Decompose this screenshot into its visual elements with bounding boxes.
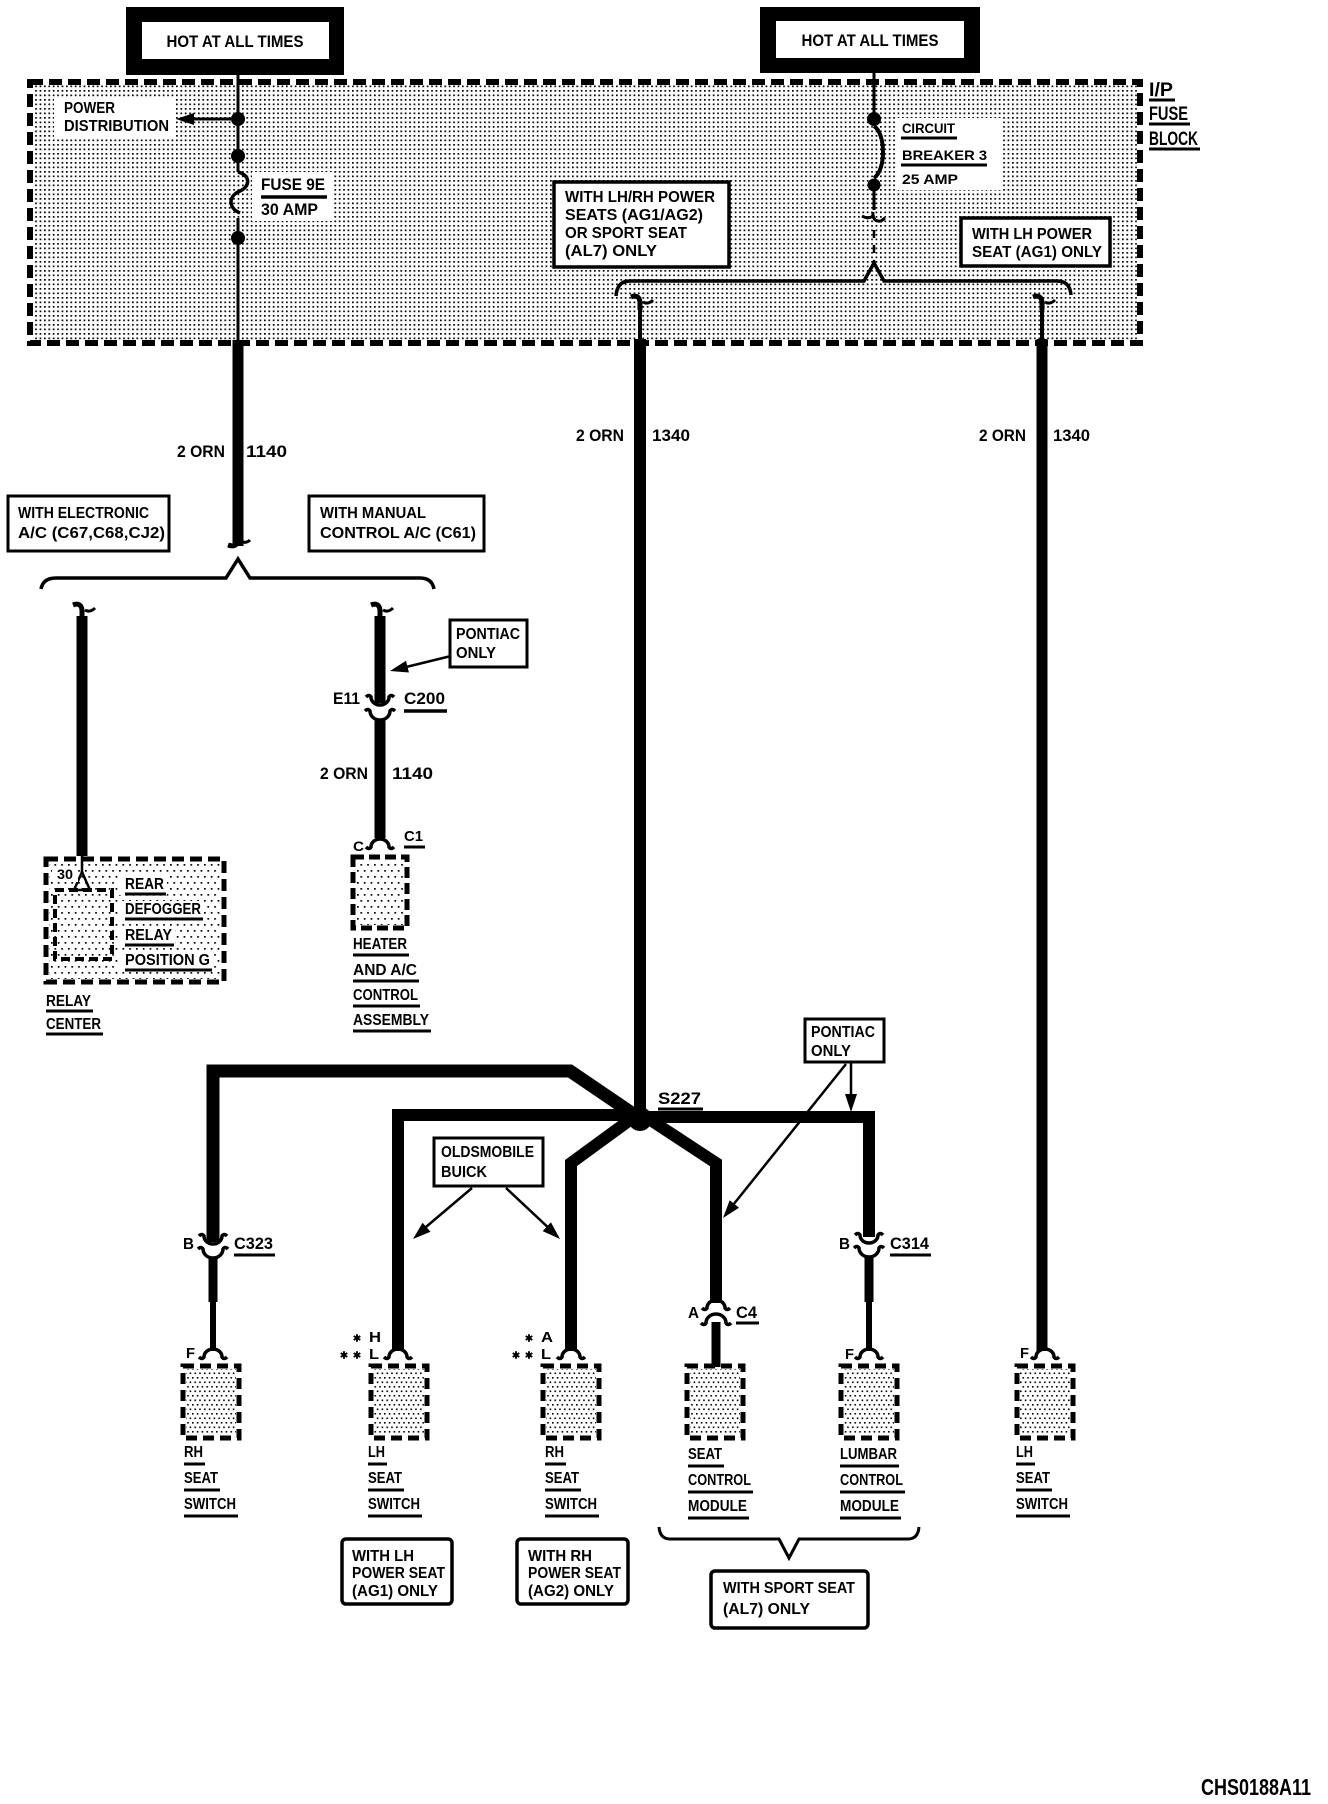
- svg-text:SEAT: SEAT: [688, 1446, 722, 1463]
- svg-text:MODULE: MODULE: [840, 1498, 899, 1515]
- svg-text:ASSEMBLY: ASSEMBLY: [353, 1012, 429, 1029]
- svg-text:AND A/C: AND A/C: [353, 962, 417, 979]
- svg-text:C: C: [353, 838, 364, 854]
- svg-text:C323: C323: [234, 1234, 273, 1253]
- svg-text:POWER: POWER: [64, 100, 115, 117]
- svg-text:A: A: [541, 1329, 553, 1346]
- svg-text:(AG2) ONLY: (AG2) ONLY: [528, 1583, 614, 1600]
- svg-text:A/C (C67,C68,CJ2): A/C (C67,C68,CJ2): [18, 525, 165, 542]
- svg-text:(AL7) ONLY: (AL7) ONLY: [723, 1601, 810, 1618]
- svg-text:SWITCH: SWITCH: [184, 1496, 236, 1513]
- svg-text:C4: C4: [736, 1303, 758, 1322]
- svg-text:SEAT: SEAT: [545, 1470, 579, 1487]
- svg-text:PONTIAC: PONTIAC: [456, 626, 520, 643]
- svg-text:POWER SEAT: POWER SEAT: [528, 1565, 621, 1582]
- svg-text:MODULE: MODULE: [688, 1498, 747, 1515]
- svg-text:FUSE 9E: FUSE 9E: [261, 175, 325, 194]
- svg-text:(AL7) ONLY: (AL7) ONLY: [565, 243, 657, 260]
- svg-text:CIRCUIT: CIRCUIT: [902, 120, 955, 136]
- svg-text:HEATER: HEATER: [353, 936, 407, 953]
- svg-text:L: L: [541, 1346, 551, 1363]
- svg-text:REAR: REAR: [125, 876, 164, 893]
- svg-text:CENTER: CENTER: [46, 1016, 101, 1033]
- svg-text:F: F: [1020, 1345, 1029, 1362]
- svg-text:1140: 1140: [392, 764, 433, 783]
- svg-text:2 ORN: 2 ORN: [177, 442, 225, 461]
- svg-text:PONTIAC: PONTIAC: [811, 1024, 875, 1041]
- svg-text:WITH MANUAL: WITH MANUAL: [320, 505, 426, 522]
- svg-text:WITH ELECTRONIC: WITH ELECTRONIC: [18, 505, 149, 522]
- svg-text:1340: 1340: [652, 426, 690, 445]
- svg-text:1340: 1340: [1053, 426, 1090, 445]
- svg-text:C200: C200: [404, 689, 445, 708]
- svg-text:25 AMP: 25 AMP: [902, 171, 958, 187]
- svg-text:S227: S227: [658, 1089, 701, 1108]
- svg-text:OLDSMOBILE: OLDSMOBILE: [441, 1144, 534, 1161]
- svg-text:H: H: [369, 1329, 381, 1346]
- svg-text:C314: C314: [890, 1234, 930, 1253]
- svg-text:RH: RH: [184, 1444, 203, 1461]
- svg-text:LUMBAR: LUMBAR: [840, 1446, 897, 1463]
- svg-text:POWER SEAT: POWER SEAT: [352, 1565, 445, 1582]
- svg-text:ONLY: ONLY: [811, 1043, 851, 1060]
- svg-text:RH: RH: [545, 1444, 564, 1461]
- svg-text:2 ORN: 2 ORN: [979, 426, 1026, 445]
- svg-text:B: B: [839, 1236, 850, 1253]
- svg-text:CONTROL: CONTROL: [840, 1472, 903, 1489]
- svg-text:2 ORN: 2 ORN: [320, 764, 368, 783]
- svg-text:A: A: [688, 1305, 699, 1322]
- svg-text:30: 30: [57, 866, 73, 882]
- svg-text:SWITCH: SWITCH: [368, 1496, 420, 1513]
- svg-text:CONTROL: CONTROL: [688, 1472, 751, 1489]
- svg-text:I/P: I/P: [1149, 80, 1173, 101]
- svg-text:1140: 1140: [246, 442, 287, 461]
- svg-text:SWITCH: SWITCH: [1016, 1496, 1068, 1513]
- svg-text:WITH LH/RH POWER: WITH LH/RH POWER: [565, 189, 715, 206]
- svg-text:WITH LH: WITH LH: [352, 1548, 414, 1565]
- svg-text:RELAY: RELAY: [125, 927, 172, 944]
- svg-text:2 ORN: 2 ORN: [576, 426, 624, 445]
- svg-text:BUICK: BUICK: [441, 1164, 487, 1181]
- svg-text:30 AMP: 30 AMP: [261, 200, 318, 219]
- svg-text:LH: LH: [1016, 1444, 1033, 1461]
- svg-text:OR SPORT SEAT: OR SPORT SEAT: [565, 225, 687, 242]
- svg-text:WITH LH POWER: WITH LH POWER: [972, 226, 1092, 243]
- svg-text:B: B: [183, 1236, 194, 1253]
- svg-text:CONTROL A/C (C61): CONTROL A/C (C61): [320, 525, 476, 542]
- svg-text:F: F: [186, 1345, 195, 1362]
- svg-text:HOT AT ALL TIMES: HOT AT ALL TIMES: [167, 32, 304, 51]
- svg-text:CHS0188A11: CHS0188A11: [1201, 1774, 1311, 1800]
- svg-text:SEAT: SEAT: [1016, 1470, 1050, 1487]
- svg-text:SWITCH: SWITCH: [545, 1496, 597, 1513]
- svg-text:F: F: [845, 1346, 854, 1363]
- svg-text:RELAY: RELAY: [46, 993, 91, 1010]
- svg-text:SEAT: SEAT: [368, 1470, 402, 1487]
- svg-text:SEATS (AG1/AG2): SEATS (AG1/AG2): [565, 207, 703, 224]
- svg-text:E11: E11: [333, 689, 360, 708]
- svg-text:ONLY: ONLY: [456, 645, 496, 662]
- svg-text:DISTRIBUTION: DISTRIBUTION: [64, 118, 169, 135]
- svg-text:CONTROL: CONTROL: [353, 987, 418, 1004]
- svg-text:WITH RH: WITH RH: [528, 1548, 592, 1565]
- svg-text:L: L: [369, 1346, 379, 1363]
- svg-text:(AG1) ONLY: (AG1) ONLY: [352, 1583, 438, 1600]
- svg-text:WITH SPORT SEAT: WITH SPORT SEAT: [723, 1580, 855, 1597]
- svg-text:FUSE: FUSE: [1149, 104, 1188, 125]
- svg-text:BLOCK: BLOCK: [1149, 129, 1198, 150]
- svg-text:DEFOGGER: DEFOGGER: [125, 901, 201, 918]
- svg-text:C1: C1: [404, 828, 423, 845]
- svg-text:SEAT (AG1) ONLY: SEAT (AG1) ONLY: [972, 244, 1102, 261]
- svg-text:POSITION G: POSITION G: [125, 952, 210, 969]
- svg-text:SEAT: SEAT: [184, 1470, 218, 1487]
- svg-text:HOT AT ALL TIMES: HOT AT ALL TIMES: [802, 31, 939, 50]
- svg-text:BREAKER 3: BREAKER 3: [902, 147, 987, 163]
- svg-text:LH: LH: [368, 1444, 385, 1461]
